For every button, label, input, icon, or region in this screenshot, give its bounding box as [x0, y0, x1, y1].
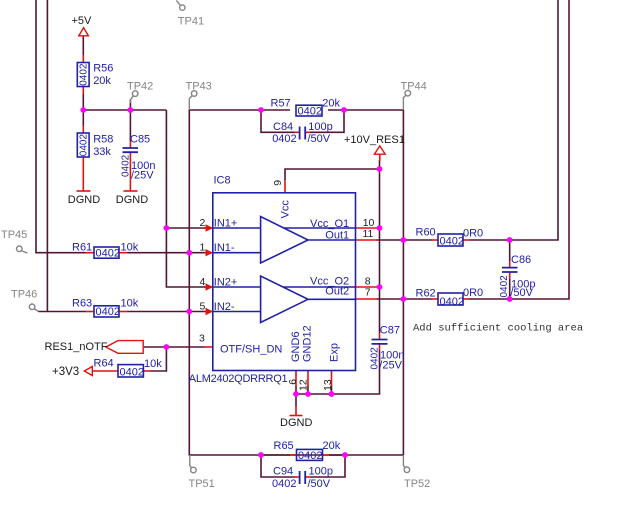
node C94 right [342, 452, 348, 458]
svg-text:0402: 0402 [96, 306, 120, 318]
op-amp B triangle [261, 276, 308, 323]
wire left vertical net IN2- from top [46, 0, 48, 312]
svg-text:/25V: /25V [131, 170, 154, 182]
svg-text:IN1+: IN1+ [214, 217, 238, 229]
label R58 [93, 134, 113, 159]
svg-text:DGND: DGND [116, 194, 148, 206]
power +10V_RES1 symbol [374, 146, 385, 154]
power +5V symbol [79, 28, 89, 36]
svg-text:0402: 0402 [121, 154, 132, 177]
pin R60 left [432, 239, 438, 241]
svg-text:0402: 0402 [79, 134, 90, 157]
resistor R61 body [94, 247, 119, 258]
wire Out2 internal [308, 298, 356, 300]
wire C87 upper [379, 287, 381, 333]
svg-text:/50V: /50V [308, 478, 331, 490]
svg-text:0402: 0402 [440, 296, 464, 308]
resistor R57 body [296, 105, 322, 116]
svg-text:0402: 0402 [298, 106, 322, 118]
svg-text:Exp: Exp [329, 343, 341, 362]
svg-text:C94: C94 [273, 466, 293, 478]
arrow pin 5 [206, 308, 214, 315]
node IN1- tap [186, 250, 192, 256]
wire IN1- internal [213, 252, 261, 254]
node pin13 [329, 391, 335, 397]
wire top rail TP43 to C84 loop [189, 109, 290, 111]
wire TP46 to R63 [39, 311, 86, 313]
pin R62 left [432, 298, 438, 300]
pin R56 bottom [82, 87, 84, 95]
svg-text:/50V: /50V [308, 133, 331, 145]
svg-text:/50V: /50V [510, 287, 533, 299]
op-amp A triangle [261, 217, 308, 264]
wire R56 bottom to divider rail [82, 94, 84, 110]
pin R58 top [82, 126, 84, 134]
wire R65 left lead [261, 454, 290, 456]
pin R63 left [86, 311, 95, 313]
testpoint TP52 [403, 455, 409, 473]
svg-text:TP43: TP43 [186, 81, 212, 93]
svg-text:20k: 20k [322, 97, 340, 109]
testpoint TP41 [176, 0, 185, 10]
resistor R65 body [297, 449, 323, 460]
svg-text:10k: 10k [121, 298, 139, 310]
svg-text:13: 13 [322, 379, 334, 391]
wire port to pin3 [144, 346, 205, 348]
svg-text:12: 12 [297, 379, 309, 391]
RED PINS [77, 55, 510, 477]
testpoint TP43 [189, 91, 197, 110]
label R61 [72, 241, 139, 253]
pin IC pin7 [356, 298, 378, 300]
resistor R62 body [438, 293, 463, 305]
power +3V3 symbol [84, 367, 92, 376]
svg-text:5: 5 [200, 301, 206, 313]
pin R62 right [463, 298, 469, 300]
svg-text:TP51: TP51 [189, 478, 215, 490]
node pin8 [377, 284, 383, 290]
svg-text:1: 1 [200, 241, 206, 253]
svg-text:C86: C86 [511, 254, 531, 266]
pin R60 right [463, 239, 469, 241]
pin C84 right [306, 131, 310, 133]
wire pin6 pin12 pin13 maroon below [296, 386, 332, 394]
svg-text:0402: 0402 [272, 133, 296, 145]
label R64 [94, 357, 163, 370]
wire R65 right lead [329, 454, 345, 456]
svg-text:R64: R64 [94, 357, 114, 369]
label C85 [130, 134, 155, 182]
svg-text:TP42: TP42 [127, 81, 153, 93]
svg-text:0R0: 0R0 [463, 287, 483, 299]
svg-text:2: 2 [200, 217, 206, 229]
node IN2- tap [186, 309, 192, 315]
wire C87 lower to DGND row [296, 350, 380, 394]
svg-text:Vcc: Vcc [280, 200, 292, 219]
label C86 [510, 254, 535, 299]
pin R58 bottom to ground [82, 157, 84, 191]
svg-text:R63: R63 [72, 298, 92, 310]
node C84 right [341, 107, 347, 113]
pin C86 bottom [509, 273, 511, 279]
wire DGND IC drop upper [295, 394, 297, 407]
label C84 [272, 121, 333, 145]
pin IC pin10 [356, 227, 378, 229]
node OTF [164, 344, 170, 350]
resistor R58 body [77, 133, 89, 157]
label R60 [416, 227, 484, 240]
label R65 [274, 440, 341, 452]
svg-text:GND12: GND12 [302, 325, 314, 362]
label C87 [379, 324, 404, 371]
svg-text:0402: 0402 [272, 478, 296, 490]
pin R65 left [290, 454, 297, 456]
svg-text:GND6: GND6 [290, 331, 302, 362]
capacitor C86 plates [502, 268, 518, 272]
wire IN1+ branch [166, 227, 205, 229]
pin IC IN2+ stub [205, 286, 214, 288]
arrow pin 1 [206, 249, 214, 256]
svg-text:10k: 10k [144, 358, 162, 370]
pin R65 right [323, 454, 330, 456]
wire Out2 to R62 [377, 298, 433, 300]
svg-text:9: 9 [272, 180, 284, 186]
wire +5V to R56 [82, 36, 84, 55]
ground bar DGND R58 [77, 190, 91, 192]
wire R60 to right corner up [469, 0, 558, 240]
svg-text:DGND: DGND [280, 417, 312, 429]
capacitor C85 plates [123, 148, 139, 152]
ground bar DGND C85 [124, 190, 138, 192]
svg-text:20k: 20k [323, 440, 341, 452]
svg-text:OTF/SH_DN: OTF/SH_DN [220, 343, 282, 355]
testpoint TP42 [130, 91, 138, 103]
pin R64 left [92, 370, 118, 372]
svg-text:0402: 0402 [440, 235, 464, 247]
svg-text:100p: 100p [308, 121, 332, 133]
svg-text:11: 11 [363, 228, 374, 240]
wire +10V to Vcc column [379, 160, 381, 287]
node TP42/C85 [127, 107, 133, 113]
wire R61 to pin1 [128, 252, 205, 254]
svg-text:100p: 100p [309, 466, 333, 478]
node pin10 [377, 225, 383, 231]
wire Vcc horizontal pin9 [285, 169, 380, 180]
svg-text:TP52: TP52 [404, 478, 430, 490]
pin IC IN1+ stub [205, 227, 214, 229]
wire Out1 internal [308, 239, 356, 241]
wire C94 loop right [310, 455, 345, 477]
svg-text:10: 10 [363, 217, 375, 229]
svg-text:7: 7 [365, 286, 371, 298]
svg-text:IN2-: IN2- [214, 301, 235, 313]
svg-text:Out2: Out2 [325, 285, 349, 297]
resistor R63 body [94, 306, 119, 317]
pin IC pin12 [307, 371, 309, 387]
label R63 [72, 298, 139, 310]
pin R61 left [86, 252, 95, 254]
wire C84 loop left [261, 110, 295, 132]
wire R63 to pin5 [128, 311, 205, 313]
svg-text:IC8: IC8 [214, 174, 231, 186]
label C94 [272, 466, 333, 490]
input arrows [206, 224, 214, 315]
svg-text:0402: 0402 [369, 347, 380, 370]
test points [17, 0, 411, 472]
wire C86 bottom [509, 279, 511, 300]
wire IN2+ internal [213, 286, 261, 288]
node C94 left [258, 452, 264, 458]
ground bar DGND IC [290, 415, 303, 417]
pin +10V stub [379, 154, 381, 161]
resistor R60 body [438, 234, 463, 246]
wire TP42 drop [129, 100, 131, 111]
arrow pin 4 [206, 283, 214, 290]
wire Vcc_O2 internal [284, 286, 356, 288]
svg-text:C87: C87 [380, 324, 400, 336]
wire IN2- internal [213, 311, 261, 313]
pin IC pin6 [295, 371, 297, 387]
testpoint TP51 [190, 455, 196, 473]
svg-text:R61: R61 [72, 241, 92, 253]
svg-text:0402: 0402 [79, 63, 90, 86]
svg-text:0402: 0402 [499, 275, 510, 298]
pin R63 right [119, 311, 128, 313]
pin IC pin3 stub [205, 346, 214, 348]
node R56/R58 divider [80, 107, 86, 113]
pin DGND IC drop [295, 407, 297, 416]
resistor R56 body [77, 63, 89, 87]
svg-text:R58: R58 [93, 134, 113, 146]
svg-text:IN1-: IN1- [214, 242, 235, 254]
pin R64 right [144, 370, 151, 372]
wire C85 top [129, 110, 131, 141]
svg-text:0R0: 0R0 [463, 228, 483, 240]
pin IC IN1- stub [205, 252, 214, 254]
wire IN1+ internal [213, 227, 261, 229]
capacitor C84 plates [300, 127, 306, 140]
node C84 left [258, 107, 264, 113]
wire divider rail [83, 109, 166, 111]
pin C94 right [306, 476, 310, 478]
svg-text:TP41: TP41 [178, 15, 204, 27]
node Vcc branch [377, 166, 383, 172]
svg-text:+10V_RES1: +10V_RES1 [344, 134, 405, 146]
arrow pin 2 [206, 224, 214, 231]
wire R58 top [82, 110, 84, 126]
testpoint TP46 [29, 304, 38, 312]
node pin6 [293, 391, 299, 397]
pin C87 top [379, 333, 381, 339]
node Out1/R60 [401, 237, 407, 243]
svg-text:TP46: TP46 [11, 289, 37, 301]
pin R56 top [82, 55, 84, 63]
svg-text:Add sufficient cooling area: Add sufficient cooling area [413, 322, 583, 334]
testpoint TP45 [17, 246, 28, 253]
svg-text:3: 3 [199, 333, 205, 345]
label R57 [271, 97, 341, 109]
svg-text:R56: R56 [93, 63, 113, 75]
svg-text:Out1: Out1 [325, 229, 349, 241]
svg-text:10k: 10k [121, 241, 139, 253]
svg-text:TP45: TP45 [1, 229, 27, 241]
pin C87 bottom [379, 345, 381, 351]
wire left vertical net IN1- from top [36, 0, 86, 253]
wire C84 loop right [310, 110, 344, 132]
COMPONENT BODIES [77, 63, 463, 461]
pin C94 left [295, 476, 300, 478]
svg-text:/25V: /25V [379, 360, 402, 372]
wire R62 to right corner up [469, 0, 569, 299]
svg-text:IN2+: IN2+ [214, 276, 238, 288]
capacitor C87 plates [372, 340, 388, 344]
svg-text:R65: R65 [274, 440, 294, 452]
svg-text:+5V: +5V [72, 15, 93, 27]
wire R57 right to TP44 column [328, 109, 403, 111]
svg-text:20k: 20k [93, 75, 111, 87]
node Out2/R62 [401, 296, 407, 302]
svg-text:ALM2402QDRRRQ1: ALM2402QDRRRQ1 [189, 373, 288, 385]
wire Out1 to R60 [377, 239, 433, 241]
svg-text:33k: 33k [93, 146, 111, 158]
svg-text:C84: C84 [273, 121, 293, 133]
svg-text:R62: R62 [416, 287, 436, 299]
wire Vcc_O1 internal [284, 227, 356, 229]
capacitor C94 plates [300, 471, 306, 484]
pin IC pin13 [331, 371, 333, 387]
label R62 [416, 287, 484, 300]
svg-text:TP44: TP44 [401, 81, 427, 93]
wire TP44 column [402, 110, 404, 455]
pin IC pin8 [356, 286, 378, 288]
svg-text:0402: 0402 [298, 450, 322, 462]
pin C85 bottom to ground [129, 153, 131, 191]
svg-text:C85: C85 [130, 134, 150, 146]
svg-text:0402: 0402 [120, 367, 144, 379]
testpoint TP44 [403, 90, 410, 110]
resistor R64 body [118, 365, 143, 377]
wire TP43 column [189, 110, 403, 456]
pin IC pin9 [284, 180, 286, 193]
pin C84 left [295, 131, 300, 133]
pin IC pin11 [356, 239, 378, 241]
node C86 bottom [507, 296, 513, 302]
port RES1_nOTF [106, 341, 143, 354]
svg-text:0402: 0402 [96, 247, 120, 259]
wire C86 top [509, 240, 511, 261]
svg-text:RES1_nOTF: RES1_nOTF [45, 341, 108, 353]
svg-text:+3V3: +3V3 [52, 366, 79, 378]
wire pin3 node down to R64 [151, 347, 167, 371]
pin C85 top [129, 141, 131, 148]
pin C86 top [509, 261, 511, 267]
label R56 [93, 63, 113, 88]
pin IC IN2- stub [205, 311, 214, 313]
node C86 top [507, 237, 513, 243]
wire C94 loop left [261, 455, 295, 477]
svg-text:4: 4 [200, 276, 206, 288]
node pin12 [305, 391, 311, 397]
pin R61 right [119, 252, 128, 254]
op-amp U1 IC8 box [213, 193, 356, 371]
svg-text:DGND: DGND [68, 194, 100, 206]
wire divider to IN1+ IN2+ [166, 110, 205, 287]
node IN1+ tap [164, 225, 170, 231]
svg-text:R60: R60 [416, 227, 436, 239]
svg-text:R57: R57 [271, 97, 291, 109]
